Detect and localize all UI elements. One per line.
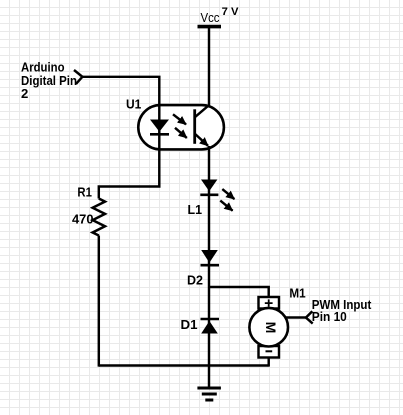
motor M1 body circle: [249, 308, 288, 347]
svg-text:U1: U1: [126, 97, 141, 112]
U1 internal LED cathode bar: [150, 133, 169, 136]
U1 phototransistor emitter with arrow: [195, 134, 208, 146]
LED L1 triangle: [201, 180, 217, 192]
wire Vcc stem: [208, 27, 210, 106]
node PWM Input Pin 10 label: [312, 297, 372, 324]
diode D2 cathode bar: [201, 264, 220, 267]
svg-text:M1: M1: [289, 286, 305, 301]
U1 emission arrow 1: [173, 114, 186, 124]
ground bar 1: [197, 387, 221, 390]
motor M1 minus terminal box: [259, 346, 280, 358]
wire U1 internal LED lead: [158, 105, 160, 149]
input pin arrow (PWM): [306, 311, 313, 323]
svg-text:M: M: [263, 322, 279, 334]
op-amp U1 optocoupler body: [138, 105, 224, 149]
svg-text:Digital Pin: Digital Pin: [21, 73, 77, 88]
svg-text:470: 470: [72, 212, 94, 227]
M1 plus sign: [265, 299, 273, 306]
svg-text:D1: D1: [181, 317, 198, 332]
Vcc power symbol bar: [198, 25, 222, 29]
svg-text:D2: D2: [187, 273, 203, 288]
ground bar 2: [202, 393, 217, 396]
wire M1 minus to bottom bus: [267, 358, 269, 367]
U1 phototransistor base bar: [193, 109, 196, 144]
LED L1 cathode bar: [200, 194, 218, 197]
ground bar 3: [205, 399, 213, 402]
M1 minus sign: [266, 350, 273, 352]
svg-text:2: 2: [21, 86, 28, 101]
wire U1 cathode to R1: [99, 148, 160, 199]
wire R1 to bottom bus: [98, 236, 100, 367]
diode D1 triangle (pointing up): [201, 321, 218, 334]
wire junction to M1 plus terminal: [209, 287, 269, 298]
svg-text:Pin 10: Pin 10: [312, 309, 347, 324]
input pin arrow (Arduino): [74, 70, 82, 84]
resistor R1 zigzag: [93, 199, 105, 236]
U1 phototransistor collector: [195, 105, 209, 117]
wire M1 to PWM input arrow: [285, 316, 306, 318]
diode D1 cathode bar: [201, 318, 220, 321]
svg-text:L1: L1: [188, 202, 203, 217]
node Arduino Digital Pin 2 label: [21, 60, 77, 102]
svg-text:7 V: 7 V: [222, 6, 239, 18]
wire Arduino pin to U1 anode: [82, 77, 159, 106]
svg-text:R1: R1: [77, 185, 92, 200]
wire bottom bus: [99, 364, 269, 366]
motor M1 plus terminal box: [259, 297, 280, 309]
wire center column (U1 emitter to ground): [208, 146, 210, 388]
svg-text:Vcc: Vcc: [201, 10, 220, 25]
L1 emission arrow 2: [220, 201, 232, 211]
L1 emission arrow 1: [222, 189, 234, 199]
diode D2 triangle: [201, 250, 218, 263]
U1 internal LED triangle: [150, 120, 169, 132]
U1 emission arrow 2: [175, 128, 187, 138]
